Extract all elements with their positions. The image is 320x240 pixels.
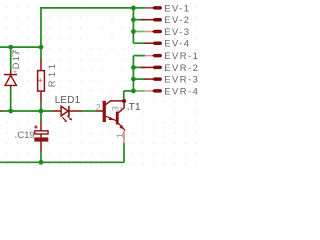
pin EVR-3 line [144, 78, 153, 80]
diode D17 cathode bar [4, 74, 17, 76]
wire: EVR bus vertical x=133.4 [132, 56, 134, 91]
node: junction at (10.7,47.1) [8, 45, 13, 50]
node: junction EVR-3 [131, 77, 136, 82]
LED1 anode pin red [51, 110, 61, 112]
svg-text:2: 2 [96, 102, 101, 112]
svg-text:3: 3 [111, 106, 121, 111]
pin EVR-3 bar [152, 77, 162, 81]
node: junction EV-1 [131, 6, 136, 11]
transistor T1 collector drop to second bar [119, 101, 125, 113]
pin EV-1 line [145, 7, 154, 9]
wire: diode top lead green [10, 47, 12, 70]
LED LED1 cathode bar [68, 106, 70, 117]
wire: resistor bottom lead green [40, 102, 42, 111]
capacitor C19 leads red [40, 121, 42, 152]
svg-text:EVR-4: EVR-4 [164, 85, 199, 96]
pin EVR-1 line (highlighted) [145, 55, 154, 57]
node: junction at (41,162.3) [39, 160, 44, 165]
pin EVR-1 bar [152, 54, 162, 58]
node: junction at (41,111) [39, 109, 44, 114]
wire: red stub at left edge y=111 [0, 110, 3, 112]
wire: EVR-3 stub [133, 78, 145, 80]
svg-text:1: 1 [115, 133, 125, 138]
node: junction EV-2 [131, 17, 136, 22]
wire: vertical riser x=41 up and across to EV bus [41, 8, 133, 47]
node: junction EVR-4 [131, 89, 136, 94]
svg-text:EVR-1: EVR-1 [164, 50, 199, 61]
T1 symbol origin cross [120, 107, 122, 109]
pin EV-4 bar [152, 41, 162, 45]
pin EVR-2 line [141, 66, 154, 68]
pin EVR-4 bar [152, 89, 162, 93]
LED LED1 emission arrows [62, 116, 72, 123]
transistor T1 base bar [103, 101, 106, 122]
LED LED1 triangle [61, 106, 68, 116]
wire: EVR-1 stub [133, 55, 145, 57]
svg-text:T1: T1 [129, 102, 141, 113]
capacitor C19 plus sign [34, 125, 38, 129]
pin EV-3 line (highlighted) [145, 31, 154, 33]
capacitor C19 top plate [35, 131, 48, 134]
transistor T1 base pin red [97, 110, 103, 112]
wire: bottom rail y=162.3 [0, 161, 124, 163]
resistor R11 pins red [40, 59, 42, 103]
node: junction EVR-2 [131, 65, 136, 70]
wire: capacitor top lead green [40, 111, 42, 121]
node: junction at (41,47.1) [39, 45, 44, 50]
LED1 cathode pin red [69, 110, 82, 112]
wire: green net LED to base [82, 110, 97, 112]
svg-text:EV-2: EV-2 [164, 14, 190, 25]
node: collector dot red [122, 99, 126, 103]
transistor T1 second base bar [116, 112, 119, 125]
pin EV-3 bar [152, 30, 162, 34]
svg-text:EV-1: EV-1 [164, 2, 190, 13]
wire: EV-4 stub [133, 42, 145, 44]
label T1 origin mark [127, 109, 129, 111]
svg-text:EVR-2: EVR-2 [164, 62, 199, 73]
svg-text:LED1: LED1 [55, 95, 81, 106]
pin EV-1 bar [152, 6, 162, 9]
resistor R11 body [38, 71, 45, 92]
svg-text:EV-3: EV-3 [164, 26, 190, 37]
svg-text:D17: D17 [11, 48, 21, 69]
transistor T1 first emitter arrowhead [108, 117, 113, 120]
wire: EV bus vertical x=133.4 [132, 8, 134, 43]
wire: diode bottom lead green [10, 88, 12, 111]
node: junction at (10.7,111) [8, 109, 13, 114]
diode D17 triangle [5, 75, 16, 85]
D17 origin cross [13, 70, 16, 73]
pin EV-2 line [141, 19, 154, 21]
wire: EV-2 stub [133, 19, 145, 21]
transistor T1 emitter pin (highlighted pink) [123, 131, 125, 144]
wire: top-left horizontal net y=47 [0, 46, 41, 48]
wire: middle horizontal net y=111 [2, 110, 51, 112]
pin EVR-2 bar [152, 66, 162, 70]
node: junction EV-3 [131, 29, 136, 34]
transistor T1 first collector diagonal and top rail [106, 101, 125, 105]
resistor R11 origin cross [38, 78, 42, 82]
svg-text:R11: R11 [47, 61, 58, 87]
pin EV-4 line [144, 42, 153, 44]
wire: EVR-4 row left segment [124, 90, 134, 92]
wire: EV-3 stub (highlighted) [133, 31, 145, 33]
pin EVR-4 line (highlighted) [145, 90, 154, 92]
wire: EV-1 stub [133, 7, 145, 9]
capacitor C19 bottom plate [34, 137, 48, 141]
transistor T1 first emitter arrow into second base [106, 116, 117, 121]
wire: EVR-2 stub [133, 66, 145, 68]
label C19 origin mark [15, 136, 17, 139]
wire: emitter to bottom rail green [123, 143, 125, 162]
transistor T1 second emitter arrowhead [119, 125, 124, 129]
wire: capacitor bottom lead green [40, 152, 42, 163]
wire: EVR-4 stub (highlighted) [133, 90, 145, 92]
diode D17 red leads [10, 70, 12, 88]
wire: collector net up to EVR-4 row [123, 91, 125, 100]
transistor T1 second emitter line [119, 124, 125, 131]
pin EV-2 bar [152, 18, 162, 22]
gray flag marker below junction [13, 50, 20, 57]
svg-text:EVR-3: EVR-3 [164, 74, 199, 85]
svg-text:C19: C19 [17, 130, 34, 141]
wire: resistor top lead green [40, 47, 42, 59]
svg-text:EV-4: EV-4 [164, 38, 190, 49]
